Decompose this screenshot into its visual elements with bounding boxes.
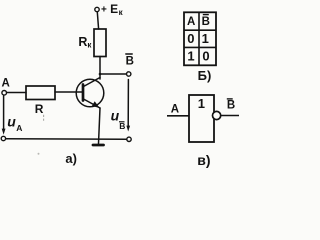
svg-text:1: 1 [202,31,209,46]
svg-text:u: u [7,113,16,129]
svg-text:Б): Б) [198,68,212,83]
svg-text:А: А [187,16,195,28]
svg-text:А: А [171,104,179,116]
svg-text:0: 0 [187,31,194,46]
svg-text:1: 1 [198,96,205,111]
svg-text:0: 0 [202,49,209,64]
svg-text:В: В [126,55,134,67]
svg-text:+: + [101,5,107,16]
svg-text:R: R [35,102,44,116]
svg-text:А: А [2,78,10,90]
svg-text:В: В [227,100,235,112]
svg-text:1: 1 [187,49,194,64]
svg-text:в): в) [197,152,210,168]
svg-text:а): а) [65,151,77,166]
svg-text:А: А [16,123,22,133]
svg-text:В: В [119,121,125,131]
svg-text:В: В [202,16,210,28]
